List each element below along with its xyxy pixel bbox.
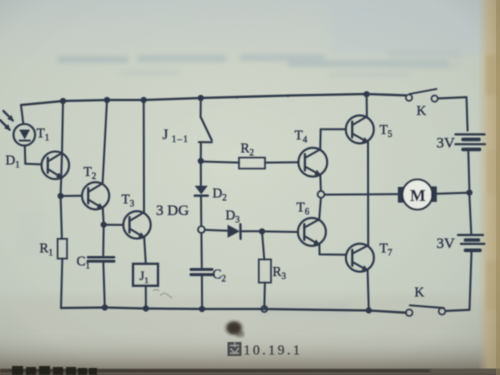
wire: T5 emitter down to T7 collector (crosses motor wire) [367, 142, 369, 245]
capacitor C1 [88, 257, 114, 261]
wire: node C to T6 base [262, 230, 298, 233]
wire: T4 collector up and right to T5 base [320, 129, 346, 149]
wire: T7 emitter to bottom rail [368, 270, 369, 310]
wire: T5 collector to rail [366, 94, 368, 116]
transistor T4 [298, 148, 327, 177]
relay coil J1 box [133, 264, 158, 286]
wire: node A to motor [324, 193, 398, 196]
wire: T6 collector up to node A [319, 198, 321, 220]
battery B1 (3V) [456, 134, 486, 149]
node dot on top rail above T3 [141, 97, 147, 103]
wire: C2 to bottom rail [201, 275, 203, 309]
wire: motor to battery midpoint [437, 192, 467, 195]
resistor R3 [259, 259, 271, 282]
switch K (bottom) [406, 305, 445, 316]
resistor R1 [58, 239, 67, 259]
wire: T3 emitter to relay coil [144, 238, 146, 264]
wire: node to R2 [201, 162, 239, 163]
light arrow 2 into D1 [0, 120, 9, 130]
node A open junction circle [318, 191, 325, 198]
dark ink blob above caption [223, 319, 246, 338]
node open dot bottom rail below R3 [261, 306, 267, 312]
wire: left drop from rail to photodiode [21, 105, 23, 124]
wire: top supply rail [21, 94, 406, 105]
wire: K top to right rail corner [438, 97, 467, 98]
node dot bottom rail below T7 [366, 307, 372, 313]
wire: node C down to R3 [262, 231, 264, 259]
ghost print-through text rows (top) [18, 50, 460, 316]
wire: T6 emitter to T7 base [319, 245, 346, 255]
speck on rail [287, 94, 290, 97]
resistor R2 [239, 158, 265, 169]
wire: D1 to T1 base [25, 163, 41, 166]
wire: node B to D3 [205, 229, 228, 232]
transistor T2 [82, 182, 109, 209]
light arrow 1 into D1 [4, 111, 13, 121]
motor M [398, 180, 437, 210]
node dot bottom rail below C1 [102, 304, 108, 310]
wire: T2 emitter down [102, 208, 105, 224]
wire: midpoint to battery 2 [469, 195, 471, 235]
wire: T2 collector to rail [103, 100, 107, 183]
wire: relay to bottom rail [145, 286, 147, 309]
switch K (top) [406, 89, 438, 102]
caption 图10.19.1 [228, 342, 303, 358]
transistor T1 [42, 152, 70, 180]
wire: node B down to C2 [200, 233, 202, 267]
wire: bottom-right corner to K bottom [445, 310, 469, 311]
wire: junction to T2 base [61, 195, 82, 197]
bottom dark page edge [0, 369, 500, 373]
relay contact switch J1-1 [199, 98, 212, 158]
right page-edge dark sliver [496, 0, 500, 375]
wire: junction down to R1 [61, 196, 62, 239]
node B open junction circle [198, 226, 205, 233]
battery B2 (3V) [458, 235, 484, 250]
node dot on top rail above T5 [364, 91, 370, 97]
wire: battery 1 to midpoint [468, 151, 469, 190]
wire: R2 to T4 base [265, 161, 299, 163]
node dot battery midpoint [466, 190, 472, 196]
node dot below J1-1 [198, 158, 204, 164]
wire: node down to D2 [200, 161, 202, 186]
transistor T6 [298, 218, 326, 246]
wire: battery 2 down to bottom-right corner [470, 252, 472, 310]
photodiode D1 [13, 124, 35, 146]
node dot on top rail above J1-1 [198, 95, 204, 101]
wire: T3 collector to rail [143, 101, 145, 213]
wire: D1 cathode down [24, 146, 27, 164]
diode D3 [228, 224, 241, 239]
wire: R3 to bottom rail [263, 283, 266, 309]
wire: bottom ground rail [61, 308, 406, 313]
circuit layer [0, 89, 485, 316]
wire: T4 emitter down to node A [319, 175, 322, 191]
transistor T5 [346, 115, 374, 143]
capacitor C2 [191, 269, 212, 274]
diode D2 [195, 186, 208, 196]
wire: junction down to C1 [102, 225, 105, 256]
bottom-left partial text (next line of book) [12, 366, 97, 375]
wire: D2 to node B [200, 196, 202, 226]
node dot bottom rail below C2 [199, 306, 205, 312]
wire: T1 collector to rail and emitter down (continuous line past circle) [61, 101, 63, 196]
speck on rail [236, 96, 239, 99]
node dot on top rail above T2 [104, 97, 110, 103]
node dot T1 emitter junction [58, 193, 64, 199]
transistor T7 [346, 244, 374, 272]
node dot C (D3/R3/T6 base) [259, 228, 265, 234]
wire: R1 to bottom rail [61, 259, 62, 308]
wire: D3 to node C [241, 230, 260, 232]
faint pen smudge near relay [153, 290, 172, 299]
wire: right rail down to battery 1 [467, 97, 468, 130]
wire: C1 to bottom rail [103, 262, 105, 308]
node dot on top rail above T1 [60, 98, 66, 104]
wire: junction to T3 base [104, 224, 124, 226]
transistor T3 [123, 211, 150, 238]
node dot bottom rail below relay [143, 305, 149, 311]
node dot T2 emitter junction [101, 222, 107, 228]
